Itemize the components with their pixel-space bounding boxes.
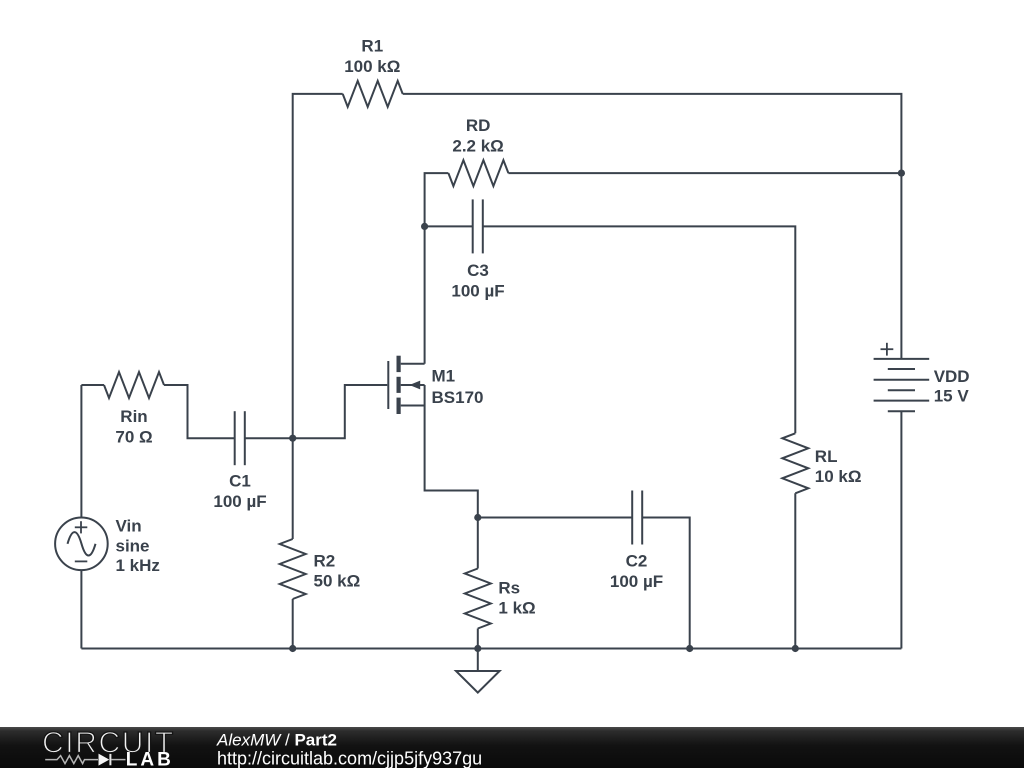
svg-text:1 kΩ: 1 kΩ — [498, 599, 535, 618]
svg-text:http://circuitlab.com/cjjp5jfy: http://circuitlab.com/cjjp5jfy937gu — [217, 749, 482, 768]
svg-text:Rs: Rs — [498, 579, 520, 598]
svg-text:C1: C1 — [229, 472, 251, 491]
svg-text:C2: C2 — [626, 552, 648, 571]
svg-text:VDD: VDD — [934, 367, 970, 386]
svg-text:R1: R1 — [361, 37, 383, 56]
svg-text:Rin: Rin — [120, 407, 147, 426]
svg-text:100 µF: 100 µF — [610, 572, 663, 591]
svg-text:50 kΩ: 50 kΩ — [314, 572, 361, 591]
svg-text:C3: C3 — [467, 261, 489, 280]
svg-text:RD: RD — [466, 116, 491, 135]
svg-text:100 µF: 100 µF — [213, 492, 266, 511]
svg-text:1 kHz: 1 kHz — [116, 556, 160, 575]
svg-text:AlexMW / Part2: AlexMW / Part2 — [216, 730, 337, 749]
svg-text:RL: RL — [815, 447, 838, 466]
svg-text:R2: R2 — [314, 552, 336, 571]
svg-text:LAB: LAB — [126, 750, 174, 768]
svg-text:M1: M1 — [432, 367, 456, 386]
svg-text:2.2 kΩ: 2.2 kΩ — [452, 137, 503, 156]
svg-text:100 kΩ: 100 kΩ — [344, 57, 400, 76]
svg-text:BS170: BS170 — [432, 388, 484, 407]
svg-text:10 kΩ: 10 kΩ — [815, 467, 862, 486]
svg-text:70 Ω: 70 Ω — [115, 428, 152, 447]
svg-text:Vin: Vin — [116, 517, 142, 536]
svg-text:15 V: 15 V — [934, 387, 970, 406]
svg-text:sine: sine — [116, 537, 150, 556]
svg-text:100 µF: 100 µF — [451, 282, 504, 301]
